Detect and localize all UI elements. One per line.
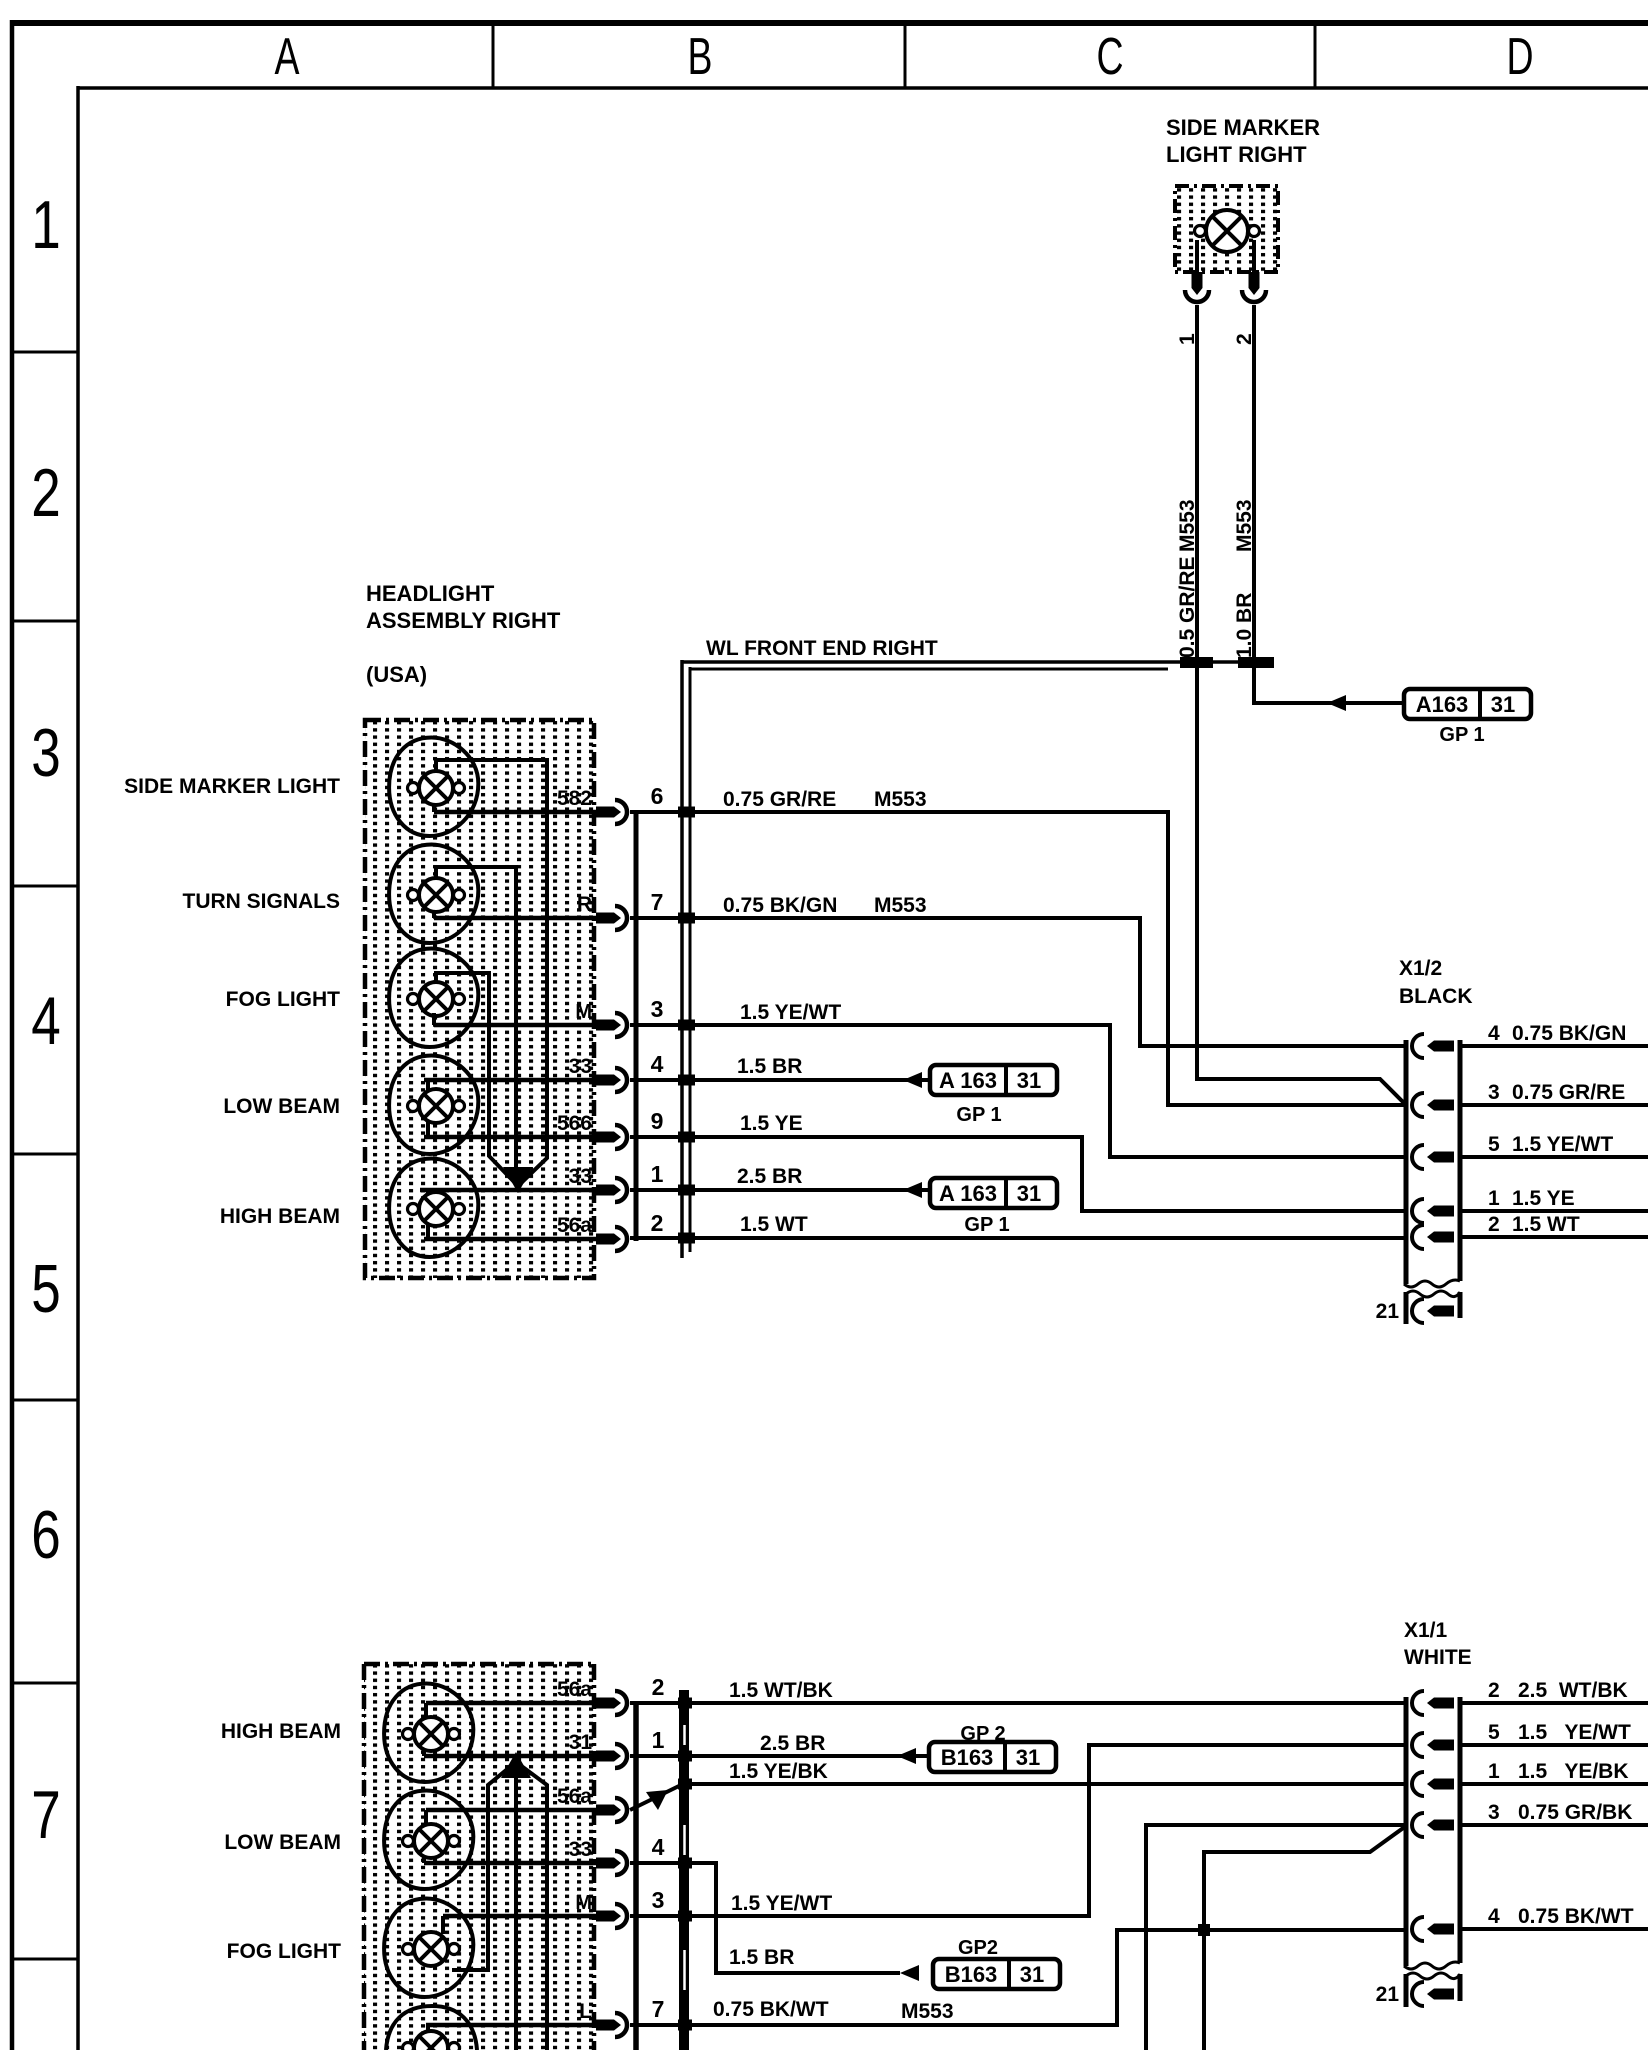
svg-text:33: 33 — [569, 1055, 592, 1078]
wire 1.5 YE/BK to X1/1 pin1 — [680, 1782, 1406, 1786]
svg-text:A 163: A 163 — [939, 1068, 997, 1093]
label 3 0.75 GR/BK — [1488, 1801, 1632, 1824]
wire 1.5 WT/BK pin2 to X1/1 pin2 — [630, 1701, 1406, 1705]
riser bulb1 to row 582 — [432, 804, 436, 812]
svg-text:A163: A163 — [1416, 692, 1469, 717]
svg-text:M553: M553 — [901, 2000, 954, 2023]
svg-text:0.75 GR/RE: 0.75 GR/RE — [723, 788, 836, 811]
svg-text:21: 21 — [1376, 1300, 1400, 1323]
svg-text:9: 9 — [651, 1108, 664, 1134]
connector X1/2 body — [1404, 1040, 1460, 1287]
ground symbol A163 31 — [1404, 689, 1531, 719]
svg-text:GP 2: GP 2 — [960, 1723, 1005, 1745]
svg-text:HIGH BEAM: HIGH BEAM — [221, 1720, 341, 1743]
ground arrow on 1.0 BR wire — [1327, 695, 1346, 711]
reflector low beam bulb (right) — [389, 1056, 478, 1155]
frame column separators — [493, 22, 1315, 88]
X1/1 pin 21 tail piece — [1406, 1973, 1460, 2007]
riser low beam top to row 56a wire — [424, 1810, 428, 1824]
bus bar (bottom headlight connector) — [633, 1703, 639, 2050]
X1/2 pin 5 — [1412, 1145, 1454, 1169]
ground symbol B163 31 (pin4 bottom) — [933, 1959, 1060, 1989]
bulb turn signal (right) — [408, 878, 465, 912]
svg-text:6: 6 — [31, 1497, 61, 1573]
wire 1.5 YE/WT pin3 to X1/2 pin5 — [630, 1025, 1406, 1157]
X1/2 pin 21 tail piece — [1406, 1291, 1460, 1324]
bulb high beam (right) — [408, 1192, 465, 1226]
svg-text:1.5 BR: 1.5 BR — [737, 1055, 802, 1078]
label SIDE MARKER LIGHT RIGHT — [1166, 115, 1320, 167]
bulb low beam (right) — [408, 1089, 465, 1123]
terminal wire 582 row y812 — [434, 810, 596, 815]
ground merge wiring bottom box — [452, 1760, 547, 2050]
svg-text:3: 3 — [1488, 1081, 1500, 1104]
X1/2 pin 4 — [1412, 1034, 1454, 1058]
ground arrow on 1.5 BR (bottom) — [900, 1965, 919, 1981]
wire 2.5 BR pin1 to ground — [630, 1188, 930, 1192]
svg-text:582: 582 — [557, 787, 592, 810]
svg-text:1.5 YE: 1.5 YE — [1512, 1187, 1575, 1210]
X1/1 pin 3 — [1412, 1813, 1454, 1837]
svg-text:1.5 YE/WT: 1.5 YE/WT — [1512, 1133, 1613, 1156]
svg-text:C: C — [1096, 27, 1123, 86]
X1/1 pin 4 — [1412, 1917, 1454, 1941]
terminal wire R row y918 — [434, 916, 596, 921]
svg-text:A: A — [275, 27, 301, 86]
reflector low beam bulb (left) — [384, 1791, 473, 1890]
svg-text:31: 31 — [1020, 1962, 1044, 1987]
label HEADLIGHT ASSEMBLY RIGHT (USA) — [366, 581, 561, 687]
loom crossing tick wire2 — [1238, 657, 1274, 668]
X1/1 pin 2 — [1412, 1691, 1454, 1715]
svg-text:HEADLIGHT: HEADLIGHT — [366, 581, 495, 606]
svg-text:4: 4 — [1488, 1022, 1500, 1045]
partial 4th reflector at page bottom — [386, 2006, 477, 2050]
terminal wire 33 row y1863 (bottom) — [424, 1861, 596, 1866]
svg-text:31: 31 — [1491, 692, 1515, 717]
svg-text:GP 1: GP 1 — [964, 1214, 1009, 1236]
bulb low beam (left) — [403, 1824, 460, 1858]
svg-text:4: 4 — [31, 983, 61, 1059]
svg-text:2: 2 — [1488, 1213, 1500, 1236]
svg-text:(USA): (USA) — [366, 662, 427, 687]
terminal wire M row y1916 (bottom) — [443, 1914, 596, 1919]
riser bulb3 to row M — [432, 1013, 436, 1025]
svg-text:0.75 BK/WT: 0.75 BK/WT — [1518, 1905, 1634, 1928]
svg-text:L: L — [579, 2000, 592, 2023]
svg-text:FOG LIGHT: FOG LIGHT — [227, 1940, 341, 1963]
headlight pin at row y1137 — [596, 1125, 627, 1149]
riser bulb2 to row R — [432, 911, 436, 918]
svg-text:B: B — [688, 27, 713, 86]
wire 0.75 BK/WT pin7 to X1/1 pin4 — [630, 1930, 1406, 2025]
frame row separators — [10, 352, 78, 1959]
bulb side marker (right) — [408, 771, 465, 805]
wire from X1/1 pin 1 to edge — [1460, 1782, 1648, 1786]
riser bulb4 bottom to row 566 — [426, 1122, 430, 1137]
X1/1 pin 5 — [1412, 1733, 1454, 1757]
svg-text:33: 33 — [569, 1838, 592, 1861]
riser high beam bottom — [422, 1750, 426, 1756]
riser bulb4 top to row 33 — [426, 1080, 430, 1092]
terminal wire 33 row y1190 — [420, 1188, 596, 1193]
svg-text:A 163: A 163 — [939, 1181, 997, 1206]
ground wire bulb2 to merge — [436, 867, 516, 1186]
wire 1.5 YE from X1/2 pin 1 to edge — [1460, 1209, 1648, 1213]
headlight pin at row y1863 (bottom) — [596, 1851, 627, 1875]
svg-text:7: 7 — [652, 1996, 665, 2022]
ground merge arrowhead (up) bottom box — [501, 1752, 531, 1778]
svg-text:1: 1 — [31, 187, 61, 263]
headlight pin at row y812 — [596, 800, 627, 824]
svg-text:56a: 56a — [557, 1678, 592, 1701]
svg-text:0.75 BK/WT: 0.75 BK/WT — [713, 1998, 829, 2021]
terminal wire 56a (diagonal pin row) — [426, 1808, 596, 1813]
label X1/1 WHITE — [1404, 1619, 1472, 1669]
svg-text:4: 4 — [1488, 1905, 1500, 1928]
headlight pin at row y1703 (bottom) — [596, 1691, 627, 1715]
X1/2 pin 1 — [1412, 1199, 1454, 1223]
svg-text:4: 4 — [651, 1051, 664, 1077]
wire 1.5 YE/WT pin3 to X1/1 pin5 — [630, 1745, 1406, 1916]
loom ticks at wire crossings (bottom) — [678, 1698, 692, 2031]
svg-text:X1/1: X1/1 — [1404, 1619, 1448, 1642]
headlight pin at row y918 — [596, 906, 627, 930]
side marker light E5/2 dashed housing — [1175, 186, 1278, 272]
side marker lead wires — [1197, 240, 1254, 274]
svg-text:5: 5 — [1488, 1721, 1500, 1744]
reflector side marker bulb (right) — [389, 738, 478, 837]
svg-text:X1/2: X1/2 — [1399, 957, 1442, 980]
svg-text:HIGH BEAM: HIGH BEAM — [220, 1205, 340, 1228]
headlight pin at row y1810 (bottom) — [596, 1798, 627, 1822]
junction at 0.75 BK/WT crossing — [1198, 1924, 1210, 1936]
wire to X1/1 pin3 going off-page (right, diagonal) — [1204, 1826, 1406, 2050]
wire 0.5 GR/RE from side marker pin 1 down to X1/2 pin 3 — [1197, 305, 1406, 1105]
side marker pin 2 — [1242, 272, 1266, 302]
loom ticks at wire crossings (top) — [678, 807, 695, 1244]
riser high beam top — [424, 1703, 428, 1717]
svg-text:3: 3 — [1488, 1801, 1500, 1824]
riser bulb5 bottom to row 56a — [426, 1225, 430, 1239]
svg-text:6: 6 — [651, 783, 664, 809]
svg-text:31: 31 — [1017, 1068, 1041, 1093]
svg-text:1: 1 — [1488, 1760, 1500, 1783]
svg-text:2: 2 — [1488, 1679, 1500, 1702]
label 1 1.5 YE — [1488, 1187, 1575, 1210]
partial 4th bulb — [403, 2031, 460, 2050]
wire from X1/1 pin 4 to edge — [1460, 1927, 1648, 1931]
wire 1.0 BR from side marker pin 2 to ground — [1254, 305, 1404, 703]
reflector turn signal bulb (right) — [389, 845, 478, 944]
label 4 0.75 BK/GN — [1488, 1022, 1626, 1045]
svg-text:TURN SIGNALS: TURN SIGNALS — [183, 890, 341, 913]
wire 1.5 YE pin9 to X1/2 pin1 — [630, 1137, 1406, 1211]
wire 1.5 WT pin2 to X1/2 pin2 — [630, 1236, 1406, 1240]
riser fog top — [441, 1916, 445, 1934]
terminal wire M row y1025 — [434, 1023, 596, 1028]
terminal wire 31 row y1756 (bottom) — [424, 1754, 596, 1759]
label X1/2 BLACK — [1399, 957, 1473, 1008]
ground wire bulb1 to merge — [436, 760, 547, 1186]
bulb fog (left) — [403, 1932, 460, 1966]
bulb high beam (left) — [403, 1717, 460, 1751]
diagonal 56a pin to 1.5 YE/BK row — [630, 1784, 683, 1810]
svg-text:3: 3 — [651, 996, 664, 1022]
svg-text:3: 3 — [652, 1887, 665, 1913]
svg-text:7: 7 — [31, 1777, 61, 1853]
headlight pin at row y1025 — [596, 1013, 627, 1037]
svg-text:2: 2 — [31, 455, 61, 531]
wire from X1/1 pin 2 to edge — [1460, 1701, 1648, 1705]
svg-text:WHITE: WHITE — [1404, 1646, 1472, 1669]
ground symbol B163 31 (pin1 bottom) — [929, 1742, 1056, 1772]
side marker bulb E5/2 — [1195, 210, 1260, 252]
svg-text:56a: 56a — [557, 1214, 592, 1237]
ground symbol A 163 31 (pin1) — [930, 1178, 1057, 1208]
terminal wire L row y2025 (bottom) — [426, 2023, 596, 2028]
wiring loom WL outline top — [681, 662, 1273, 669]
loom crossing tick wire1 — [1180, 657, 1213, 668]
headlight pin at row y1756 (bottom) — [596, 1744, 627, 1768]
reflector fog bulb (right) — [389, 949, 478, 1048]
svg-text:LOW BEAM: LOW BEAM — [223, 1095, 340, 1118]
svg-text:1.5 YE/BK: 1.5 YE/BK — [729, 1760, 828, 1783]
ground arrow on 2.5 BR (bottom) — [897, 1748, 916, 1764]
riser low beam bottom — [422, 1856, 426, 1863]
ground merge arrowhead (down) — [503, 1167, 533, 1193]
wire 0.75 BK/GN pin7 to X1/2 pin4 — [630, 918, 1406, 1046]
X1/2 pin 2 — [1412, 1225, 1454, 1249]
svg-text:GP 1: GP 1 — [956, 1104, 1001, 1126]
svg-text:1.5 BR: 1.5 BR — [729, 1946, 794, 1969]
svg-text:31: 31 — [1017, 1181, 1041, 1206]
bulb fog (right) — [408, 982, 465, 1016]
ground arrow on 2.5 BR — [903, 1182, 922, 1198]
terminal wire 56a row y1703 (bottom) — [426, 1701, 596, 1706]
side marker pin 1 — [1185, 272, 1209, 302]
svg-text:B163: B163 — [945, 1962, 998, 1987]
svg-text:B163: B163 — [941, 1745, 994, 1770]
svg-text:D: D — [1506, 27, 1533, 86]
svg-text:566: 566 — [557, 1112, 592, 1135]
bus bar (top headlight connector) — [634, 812, 639, 1241]
svg-text:2: 2 — [651, 1210, 664, 1236]
svg-text:1.5 WT: 1.5 WT — [740, 1213, 808, 1236]
wire 1.5 BR pin4 to ground (bottom) — [630, 1863, 900, 1973]
svg-text:33: 33 — [569, 1165, 592, 1188]
headlight pin at row y2025 (bottom) — [596, 2013, 627, 2037]
svg-text:5: 5 — [31, 1251, 61, 1327]
headlight pin at row y1080 — [596, 1068, 627, 1092]
wire 0.75 BK/GN from X1/2 pin 4 to edge — [1460, 1044, 1648, 1048]
svg-text:M553: M553 — [874, 788, 927, 811]
svg-text:31: 31 — [1016, 1745, 1040, 1770]
connector X1/1 body — [1404, 1697, 1460, 1969]
reflector high beam bulb (right) — [389, 1159, 478, 1258]
wire 2.5 BR pin1 to ground (bottom) — [630, 1754, 929, 1758]
riser bulb5 top to row 33 — [426, 1190, 430, 1194]
svg-text:LIGHT RIGHT: LIGHT RIGHT — [1166, 142, 1307, 167]
svg-text:M: M — [575, 1001, 592, 1023]
svg-text:R: R — [577, 893, 592, 916]
terminal wire 566 row y1137 — [424, 1135, 596, 1140]
svg-text:WL FRONT END RIGHT: WL FRONT END RIGHT — [706, 637, 938, 660]
svg-text:0.75 GR/BK: 0.75 GR/BK — [1518, 1801, 1632, 1824]
label 2 2.5 WT/BK — [1488, 1679, 1628, 1702]
reflector fog bulb (left) — [384, 1899, 473, 1998]
label 3 0.75 GR/RE — [1488, 1081, 1625, 1104]
wire from X1/1 pin 5 to edge — [1460, 1743, 1648, 1747]
svg-text:LOW BEAM: LOW BEAM — [224, 1831, 341, 1854]
wiring loom WL vertical (top section) — [682, 660, 690, 1258]
wire 1.5 BR pin4 to ground — [630, 1078, 930, 1082]
headlight pin at row y1239 — [596, 1227, 627, 1251]
label 5 1.5 YE/WT — [1488, 1133, 1613, 1156]
svg-text:1.5 WT: 1.5 WT — [1512, 1213, 1580, 1236]
label 1 1.5 YE/BK — [1488, 1760, 1629, 1783]
svg-text:1.5 YE/WT: 1.5 YE/WT — [1518, 1721, 1631, 1744]
svg-text:7: 7 — [651, 889, 664, 915]
svg-text:1: 1 — [652, 1727, 665, 1753]
svg-text:0.75 BK/GN: 0.75 BK/GN — [1512, 1022, 1626, 1045]
label 4 0.75 BK/WT — [1488, 1905, 1634, 1928]
wire 0.75 GR/RE from X1/2 pin 3 to edge — [1460, 1103, 1648, 1107]
svg-text:1.5 YE/BK: 1.5 YE/BK — [1518, 1760, 1629, 1783]
svg-text:M: M — [575, 1892, 592, 1914]
svg-text:2.5 WT/BK: 2.5 WT/BK — [1518, 1679, 1628, 1702]
arrowhead on diagonal (up-right) — [646, 1790, 668, 1810]
svg-text:56a: 56a — [557, 1785, 592, 1808]
svg-text:1: 1 — [651, 1161, 664, 1187]
svg-text:1.5 WT/BK: 1.5 WT/BK — [729, 1679, 833, 1702]
headlight pin at row y1916 (bottom) — [596, 1904, 627, 1928]
svg-text:21: 21 — [1376, 1983, 1400, 2006]
wiring loom WL vertical (bottom section) — [679, 1690, 689, 2050]
svg-text:GP2: GP2 — [958, 1937, 998, 1959]
svg-text:2.5 BR: 2.5 BR — [760, 1732, 825, 1755]
svg-text:GP 1: GP 1 — [1439, 724, 1484, 746]
svg-text:31: 31 — [569, 1731, 593, 1754]
riser row L down to 4th bulb — [426, 2025, 430, 2032]
svg-text:0.75 BK/GN: 0.75 BK/GN — [723, 894, 837, 917]
svg-text:1.5 YE: 1.5 YE — [740, 1112, 803, 1135]
label 2 1.5 WT — [1488, 1213, 1580, 1236]
svg-text:SIDE MARKER LIGHT: SIDE MARKER LIGHT — [124, 775, 340, 798]
ground arrow on 1.5 BR — [903, 1072, 922, 1088]
wire 1.5 WT from X1/2 pin 2 to edge — [1460, 1235, 1648, 1239]
wire from X1/1 pin 3 to edge — [1460, 1823, 1648, 1827]
terminal wire 56a row y1239 — [424, 1237, 596, 1242]
X1/2 pin 3 — [1412, 1093, 1454, 1117]
bottom headlight assembly dashed housing — [364, 1664, 594, 2050]
reflector high beam bulb (left) — [384, 1684, 473, 1783]
svg-text:M553: M553 — [874, 894, 927, 917]
ground symbol A 163 31 (pin4) — [930, 1065, 1057, 1095]
svg-text:1: 1 — [1488, 1187, 1500, 1210]
ground wire bulb3 to merge — [436, 973, 518, 1186]
svg-text:FOG LIGHT: FOG LIGHT — [226, 988, 340, 1011]
wire to X1/1 pin3 going off-page (left) — [1146, 1825, 1406, 2050]
label 5 1.5 YE/WT — [1488, 1721, 1631, 1744]
wire 1.5 YE/WT from X1/2 pin 5 to edge — [1460, 1155, 1648, 1159]
svg-text:2.5 BR: 2.5 BR — [737, 1165, 802, 1188]
svg-text:1.5 YE/WT: 1.5 YE/WT — [740, 1001, 841, 1024]
wire 0.75 GR/RE pin6 to X1/2 pin3 — [630, 812, 1406, 1105]
headlight assembly right dashed housing — [365, 720, 594, 1278]
headlight pin at row y1190 — [596, 1178, 627, 1202]
svg-text:0.75 GR/RE: 0.75 GR/RE — [1512, 1081, 1625, 1104]
svg-text:2: 2 — [652, 1674, 665, 1700]
svg-text:4: 4 — [652, 1834, 665, 1860]
svg-text:SIDE MARKER: SIDE MARKER — [1166, 115, 1320, 140]
terminal wire 33 row y1080 — [424, 1078, 596, 1083]
svg-text:3: 3 — [31, 715, 61, 791]
svg-text:1.5 YE/WT: 1.5 YE/WT — [731, 1892, 832, 1915]
svg-text:ASSEMBLY RIGHT: ASSEMBLY RIGHT — [366, 608, 561, 633]
X1/1 pin 1 — [1412, 1772, 1454, 1796]
svg-text:BLACK: BLACK — [1399, 985, 1473, 1008]
svg-text:5: 5 — [1488, 1133, 1500, 1156]
